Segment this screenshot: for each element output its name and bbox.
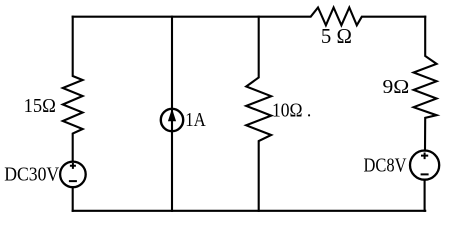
svg-text:9Ω: 9Ω xyxy=(383,77,410,98)
svg-text:15Ω: 15Ω xyxy=(24,96,56,117)
svg-text:5 Ω: 5 Ω xyxy=(321,24,352,48)
svg-text:DC8V: DC8V xyxy=(364,156,407,177)
svg-text:DC30V: DC30V xyxy=(4,165,59,186)
svg-text:10Ω .: 10Ω . xyxy=(272,101,311,122)
svg-text:1A: 1A xyxy=(185,110,206,131)
